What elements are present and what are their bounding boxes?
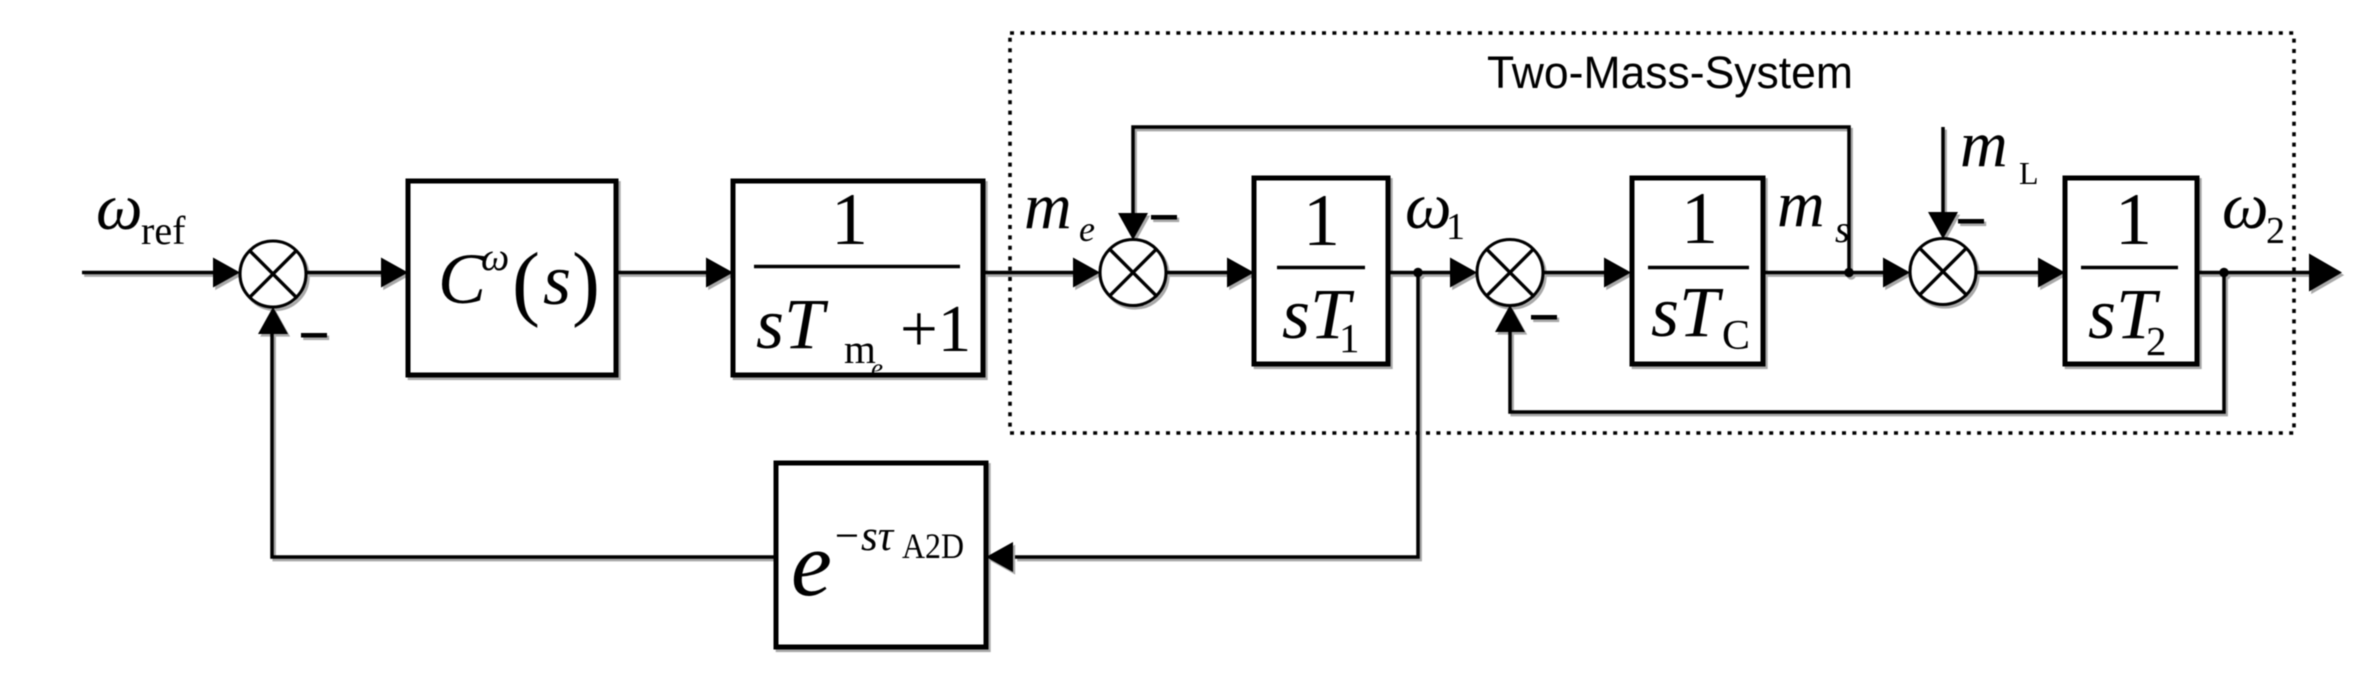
svg-text:ω: ω (96, 171, 143, 244)
svg-text:e: e (791, 513, 832, 615)
svg-text:−sτ: −sτ (832, 513, 895, 560)
svg-text:C: C (1722, 313, 1750, 359)
svg-text:e: e (871, 353, 883, 383)
svg-text:C: C (438, 239, 487, 319)
svg-text:A2D: A2D (902, 526, 964, 566)
svg-text:Two-Mass-System: Two-Mass-System (1487, 47, 1853, 98)
svg-text:1: 1 (2115, 179, 2152, 261)
svg-text:s: s (543, 240, 571, 320)
svg-text:m: m (1960, 108, 2008, 181)
svg-text:1: 1 (1303, 180, 1340, 262)
svg-text:sT: sT (756, 284, 829, 364)
svg-text:L: L (2019, 155, 2039, 191)
svg-text:1: 1 (1339, 315, 1360, 361)
svg-text:sT: sT (1651, 272, 1724, 352)
svg-text:e: e (1079, 209, 1095, 249)
svg-text:m: m (1777, 168, 1825, 241)
svg-text:1: 1 (1446, 206, 1465, 248)
svg-text:m: m (1024, 170, 1072, 243)
svg-text:ref: ref (141, 208, 186, 253)
svg-text:ω: ω (481, 234, 509, 279)
svg-text:+1: +1 (900, 292, 971, 366)
svg-text:2: 2 (2266, 210, 2285, 252)
svg-text:1: 1 (1681, 178, 1718, 260)
svg-text:(: ( (512, 236, 540, 329)
svg-text:2: 2 (2146, 318, 2167, 364)
svg-text:ω: ω (2222, 170, 2269, 243)
svg-text:1: 1 (831, 179, 868, 261)
svg-text:): ) (572, 236, 600, 329)
svg-text:s: s (1835, 209, 1850, 251)
svg-text:ω: ω (1405, 170, 1452, 243)
